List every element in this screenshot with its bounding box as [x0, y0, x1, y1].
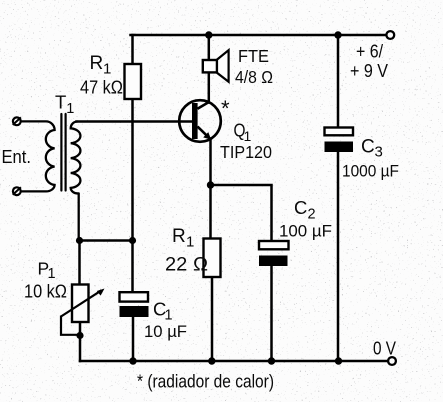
svg-text:R: R: [90, 53, 104, 74]
svg-text:100 µF: 100 µF: [279, 222, 332, 241]
svg-text:+ 9 V: + 9 V: [350, 61, 388, 81]
svg-text:1000 µF: 1000 µF: [342, 162, 399, 181]
svg-text:2: 2: [308, 207, 316, 223]
svg-text:10 µF: 10 µF: [144, 322, 187, 341]
svg-text:T: T: [55, 92, 66, 113]
svg-text:1: 1: [66, 101, 74, 117]
svg-text:* (radiador de calor): * (radiador de calor): [137, 370, 274, 391]
svg-text:0 V: 0 V: [373, 338, 397, 359]
svg-text:+ 6/: + 6/: [356, 41, 383, 61]
svg-text:47 kΩ: 47 kΩ: [80, 77, 123, 98]
svg-text:TIP120: TIP120: [220, 142, 272, 162]
svg-text:10 kΩ: 10 kΩ: [24, 280, 67, 301]
svg-text:*: *: [221, 96, 230, 121]
svg-text:1: 1: [186, 234, 194, 251]
svg-text:Ent.: Ent.: [2, 146, 32, 167]
svg-text:3: 3: [375, 144, 383, 161]
svg-text:C: C: [361, 137, 375, 158]
svg-text:1: 1: [103, 61, 111, 78]
svg-text:22 Ω: 22 Ω: [165, 254, 208, 276]
svg-text:C: C: [294, 197, 307, 218]
svg-text:R: R: [172, 226, 186, 247]
svg-text:4/8 Ω: 4/8 Ω: [235, 67, 273, 87]
svg-text:FTE: FTE: [238, 46, 269, 66]
